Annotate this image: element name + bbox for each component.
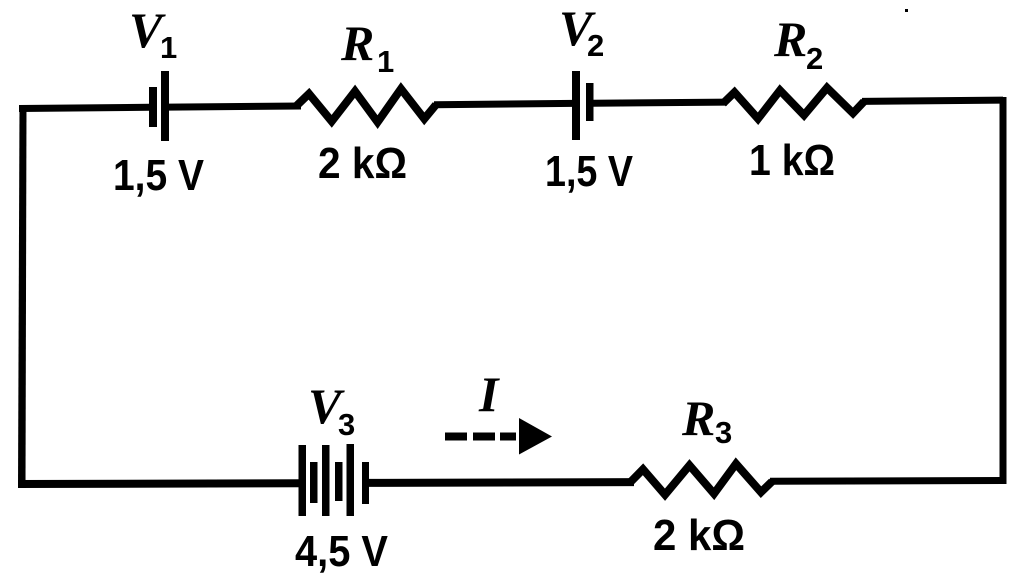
label V1 [129, 2, 177, 65]
svg-text:1: 1 [377, 44, 394, 79]
battery V3 plate 3 long [322, 445, 330, 516]
value label 1 kΩ (R2) [749, 136, 835, 185]
resistor R3 zigzag [630, 464, 772, 495]
svg-text:1 kΩ: 1 kΩ [749, 136, 835, 185]
label V2 [559, 0, 604, 63]
wire top segment: resistor R2 to right corner [862, 97, 1003, 105]
wire left vertical [18, 105, 27, 487]
wire bottom segment: resistor R3 to right corner [770, 477, 1003, 485]
svg-text:R: R [681, 390, 715, 446]
svg-text:2: 2 [587, 28, 604, 63]
wire top segment: battery V1 to resistor R1 [169, 103, 301, 111]
svg-text:R: R [773, 11, 807, 67]
value label 4,5 V (V3) [295, 527, 389, 575]
resistor R2 zigzag [723, 88, 864, 119]
wire top segment: resistor R1 to battery V2 [434, 100, 573, 108]
battery V3 plate 5 long [347, 444, 355, 516]
svg-text:2 kΩ: 2 kΩ [653, 511, 745, 560]
current arrow I dashed shaft [445, 433, 516, 441]
wire top segment: battery V2 to resistor R2 [593, 99, 727, 107]
wire top segment: left corner to battery V1 [19, 104, 150, 112]
label R1 [340, 15, 394, 79]
battery V3 plate 6 short [362, 462, 369, 504]
battery V1 short plate (negative) [149, 87, 157, 127]
svg-text:R: R [340, 15, 374, 71]
svg-text:1,5 V: 1,5 V [545, 147, 634, 196]
battery V1 long plate (positive) [161, 71, 169, 141]
wire bottom segment: left corner to battery V3 [18, 479, 302, 488]
svg-text:1,5 V: 1,5 V [113, 151, 205, 200]
value label 2 kΩ (R3) [653, 511, 745, 560]
battery V2 long plate (positive) [572, 71, 580, 140]
value label 1,5 V (V2) [545, 147, 634, 196]
speck (scan dot) [905, 9, 908, 12]
value label 1,5 V (V1) [113, 151, 205, 200]
svg-text:2 kΩ: 2 kΩ [318, 139, 407, 188]
svg-text:I: I [478, 366, 500, 422]
svg-text:1: 1 [160, 30, 177, 65]
svg-text:3: 3 [338, 407, 355, 442]
wire bottom segment: battery V3 to resistor R3 [369, 478, 634, 487]
svg-text:2: 2 [806, 41, 823, 76]
battery V3 plate 2 short [310, 462, 318, 503]
wire right vertical [1000, 97, 1007, 484]
label R2 [773, 11, 823, 76]
battery V3 plate 1 long [299, 445, 307, 516]
label R3 [681, 390, 732, 450]
svg-text:3: 3 [715, 415, 732, 450]
value label 2 kΩ (R1) [318, 139, 407, 188]
battery V2 short plate (negative) [586, 83, 594, 121]
resistor R1 zigzag [296, 89, 436, 122]
label V3 [308, 378, 355, 442]
current arrow I head [519, 418, 552, 455]
label I (current) [478, 366, 500, 422]
battery V3 plate 4 short [335, 462, 343, 501]
svg-text:4,5 V: 4,5 V [295, 527, 389, 575]
